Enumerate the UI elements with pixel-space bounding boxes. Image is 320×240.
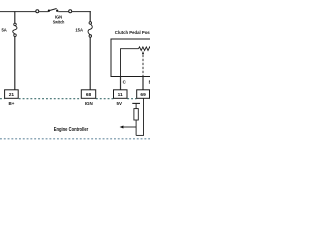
fuse F2 15A <box>88 22 92 38</box>
connector pin 68 <box>81 90 95 99</box>
wire: sense line with arrow <box>123 126 136 128</box>
svg-text:Engine Controller: Engine Controller <box>54 127 89 133</box>
svg-text:Clutch Pedal Posit: Clutch Pedal Posit <box>115 30 150 36</box>
svg-text:5V: 5V <box>116 101 122 106</box>
wire: internal 5V feed L to resistor <box>121 49 139 77</box>
wire: switch to right terminal ring <box>58 11 68 13</box>
wire: top feed from left edge to terminal circle <box>0 11 36 13</box>
node: terminal ring left of IGN switch <box>36 10 39 13</box>
fuse F1 5A <box>13 23 17 36</box>
svg-text:Switch: Switch <box>53 19 65 24</box>
svg-text:68: 68 <box>86 92 92 98</box>
dashed boundary: engine controller bottom edge <box>0 138 150 140</box>
switch IGN: pole contact dot <box>48 10 50 12</box>
wire: left branch down from top feed <box>14 11 16 23</box>
clutch pedal position switch box <box>111 39 153 77</box>
connector pin 11 <box>114 90 128 99</box>
svg-text:B: B <box>149 80 150 85</box>
wire: bottom link to pin 69 line <box>136 134 143 136</box>
svg-text:IGN: IGN <box>85 101 93 106</box>
wiper arrow <box>142 51 144 54</box>
svg-text:11: 11 <box>118 92 123 98</box>
svg-text:21: 21 <box>9 92 15 98</box>
dashed boundary: engine controller top edge <box>0 98 150 100</box>
wire: resistor down to bottom node <box>135 120 137 135</box>
wire: terminal to switch pole <box>39 11 49 13</box>
svg-text:B+: B+ <box>8 101 14 106</box>
wire: 5A fuse down to pin 21 <box>14 36 16 90</box>
svg-text:69: 69 <box>140 92 146 98</box>
switch IGN: throw contact dot <box>56 10 58 12</box>
svg-text:5A: 5A <box>1 28 6 33</box>
arrowhead: sense into controller <box>120 126 124 129</box>
resistor: internal pull-up <box>134 109 138 120</box>
power tap: internal 5V rail bar <box>132 102 140 104</box>
wiper dashed stem <box>142 55 144 76</box>
wire: 15A fuse down to pin 68 <box>89 37 91 90</box>
svg-text:15A: 15A <box>75 28 83 33</box>
resistor: potentiometer element zigzag <box>139 47 152 51</box>
wire: pin C lead <box>120 77 122 91</box>
connector pin 21 <box>5 90 19 99</box>
wire: pin B lead <box>142 77 144 91</box>
switch IGN: lever blade (open) <box>49 9 56 11</box>
wire: top run to right corner and down to 15A fuse <box>72 11 91 13</box>
connector pin 69 <box>137 90 150 99</box>
node: terminal ring right of IGN switch <box>69 10 72 13</box>
wire: rail to resistor <box>135 103 137 108</box>
wire: pin 69 down <box>143 98 145 136</box>
